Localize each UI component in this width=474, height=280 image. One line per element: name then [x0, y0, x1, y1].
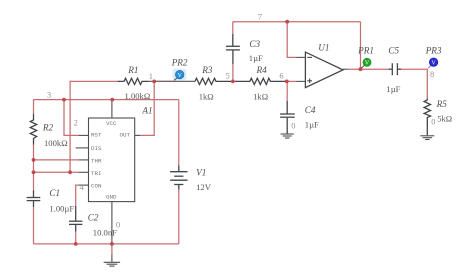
svg-text:6: 6	[279, 72, 283, 81]
svg-text:1.00kΩ: 1.00kΩ	[125, 91, 151, 101]
junction THR	[32, 158, 36, 162]
junction TRI left	[32, 170, 36, 174]
svg-text:U1: U1	[318, 42, 329, 52]
wire R1 left to TRI column	[70, 81, 118, 172]
svg-text:THR: THR	[91, 158, 102, 165]
svg-text:10.0nF: 10.0nF	[93, 227, 117, 237]
svg-text:A1: A1	[141, 106, 152, 116]
ground main G1	[104, 255, 120, 267]
wire C5 right to node8 corner	[401, 69, 427, 98]
resistor R4	[235, 78, 285, 84]
wire TRI tap	[34, 171, 79, 173]
pin stub CON	[79, 184, 89, 186]
capacitor C4	[280, 101, 295, 134]
ground below C4	[281, 134, 294, 138]
svg-text:3: 3	[47, 90, 51, 99]
svg-text:R1: R1	[127, 65, 138, 75]
junction node5	[231, 80, 235, 84]
svg-text:0: 0	[116, 221, 120, 230]
wire C3 bottom to node5	[232, 64, 234, 81]
wire THR tap	[34, 159, 79, 161]
555 timer A1 box	[89, 118, 135, 202]
wire R2 column upper	[33, 100, 35, 114]
probe PR2 circle	[175, 70, 184, 79]
junction node6	[285, 80, 289, 84]
svg-text:C2: C2	[88, 213, 99, 223]
op-amp minus stub	[296, 56, 305, 58]
probe PR1 arrow	[361, 65, 364, 68]
svg-text:1µF: 1µF	[305, 120, 319, 130]
svg-text:2: 2	[74, 119, 78, 128]
capacitor C1	[27, 191, 41, 208]
wire C1 bottom	[33, 207, 35, 244]
capacitor C3	[226, 34, 240, 64]
pin stub VCC	[111, 100, 113, 118]
svg-text:0: 0	[431, 118, 435, 127]
wire V1 top riser	[178, 100, 180, 166]
svg-text:0: 0	[291, 121, 295, 130]
svg-text:5kΩ: 5kΩ	[437, 113, 452, 123]
wire CON to C2	[76, 185, 79, 206]
wire C4 top	[286, 81, 288, 101]
wire node1 dark segment to R3	[149, 80, 196, 82]
svg-text:PR3: PR3	[425, 46, 442, 56]
op-amp minus sign	[307, 56, 312, 58]
wire bottom rail	[34, 243, 179, 245]
svg-text:C4: C4	[305, 105, 316, 115]
wire OUT riser to node 1	[140, 81, 154, 135]
svg-text:DIS: DIS	[91, 145, 102, 152]
svg-text:1kΩ: 1kΩ	[253, 91, 268, 101]
svg-text:PR2: PR2	[171, 58, 188, 68]
wire C2 bottom	[75, 232, 77, 244]
pin stub RST	[79, 134, 89, 136]
op-amp output stub	[343, 68, 348, 70]
svg-text:VCC: VCC	[106, 120, 117, 127]
svg-text:CON: CON	[91, 183, 102, 190]
wire node6 to plus input	[287, 80, 296, 82]
probe PR2 halo	[173, 69, 187, 81]
svg-text:1.00µF: 1.00µF	[49, 203, 74, 213]
wire node1 to PR2 segment	[154, 80, 176, 82]
junction VCC	[110, 98, 114, 102]
svg-text:100kΩ: 100kΩ	[44, 138, 68, 148]
wire C3 top riser	[232, 22, 234, 34]
probe PR2 arrow	[174, 78, 177, 81]
wire opamp output to C5	[348, 68, 389, 70]
capacitor C5	[389, 63, 402, 75]
junction node7	[285, 20, 289, 24]
pin stub OUT	[135, 134, 140, 136]
svg-text:C1: C1	[49, 188, 60, 198]
svg-text:RST: RST	[91, 132, 102, 139]
wire RST drop	[64, 100, 79, 136]
svg-text:R5: R5	[436, 99, 448, 109]
svg-text:TRI: TRI	[91, 170, 101, 177]
probe PR3 arrow	[428, 66, 431, 69]
pin stub GND	[111, 202, 113, 244]
wire ground stem G1	[111, 244, 113, 255]
svg-text:C3: C3	[249, 39, 260, 49]
junction node1	[152, 80, 156, 84]
svg-text:R3: R3	[201, 65, 213, 75]
svg-text:7: 7	[258, 12, 262, 21]
svg-text:C5: C5	[388, 46, 399, 56]
svg-text:GND: GND	[106, 193, 117, 200]
svg-text:V: V	[431, 61, 436, 67]
svg-text:12V: 12V	[196, 182, 212, 192]
svg-text:1kΩ: 1kΩ	[199, 91, 214, 101]
resistor R1	[118, 78, 149, 84]
wire R2 to C1 column	[33, 145, 35, 191]
pin stub TRI	[79, 171, 89, 173]
op-amp plus sign	[307, 79, 312, 84]
wire top node7 rail	[233, 21, 361, 23]
svg-text:1µF: 1µF	[249, 53, 263, 63]
svg-text:1: 1	[149, 72, 153, 81]
probe PR3 circle	[429, 58, 438, 67]
svg-text:8: 8	[430, 70, 434, 79]
resistor R3	[195, 78, 231, 84]
svg-text:5: 5	[226, 72, 230, 81]
svg-text:R2: R2	[42, 123, 54, 133]
wire feedback to minus input	[287, 22, 296, 58]
capacitor C2	[69, 206, 82, 232]
resistor R2	[30, 114, 36, 145]
svg-text:PR1: PR1	[357, 46, 374, 56]
junction GND bottom	[110, 242, 114, 246]
op-amp plus stub	[296, 80, 305, 82]
svg-text:1µF: 1µF	[386, 84, 400, 94]
ground below R5	[420, 136, 434, 140]
junction node3/RST	[62, 98, 66, 102]
op-amp U1	[305, 52, 343, 88]
wire net3 horizontal VCC rail	[34, 99, 179, 101]
junction C2 bottom	[74, 242, 78, 246]
svg-text:V1: V1	[196, 168, 206, 178]
probe PR1 circle	[363, 58, 371, 66]
wire feedback drop to output	[360, 22, 362, 69]
svg-text:V: V	[178, 73, 183, 79]
svg-text:V: V	[365, 61, 370, 67]
resistor R5	[424, 99, 430, 136]
wire V1 bottom	[178, 190, 180, 244]
pin stub THR	[79, 159, 89, 161]
svg-text:R4: R4	[256, 65, 268, 75]
junction output	[359, 67, 363, 71]
junction TRI right	[68, 170, 72, 174]
pin stub DIS	[76, 147, 89, 149]
battery V1	[170, 166, 187, 190]
svg-text:OUT: OUT	[120, 132, 131, 139]
